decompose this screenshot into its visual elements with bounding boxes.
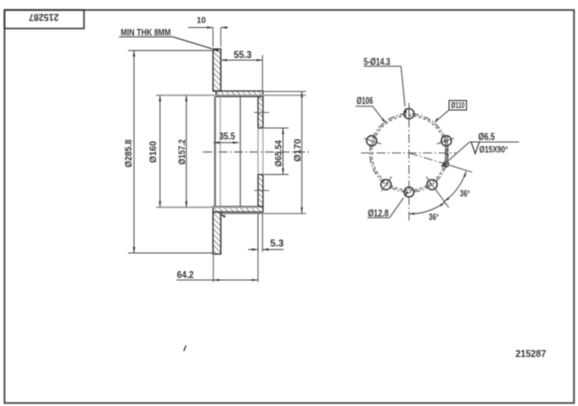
svg-text:Ø106: Ø106	[357, 96, 374, 107]
dimension dia 285.8 (disc OD)	[128, 50, 215, 52]
svg-text:55.3: 55.3	[234, 50, 252, 61]
friction surface inner edge line	[214, 97, 216, 207]
svg-text:5.3: 5.3	[270, 239, 284, 250]
horizontal centerline	[361, 152, 456, 154]
mounting flange wall lower segment (hatched)	[258, 175, 263, 207]
title block box top-left	[5, 10, 85, 29]
svg-text:215287: 215287	[29, 11, 59, 23]
dimension dia 170 (hat OD)	[264, 90, 306, 92]
countersink symbol	[471, 142, 480, 154]
mounting flange wall upper segment (hatched)	[258, 97, 263, 129]
svg-text:36°: 36°	[429, 212, 439, 222]
friction ring top section (hatched)	[213, 49, 221, 91]
diagonal centerline to small hole	[409, 153, 455, 167]
hat bottom wall (hatched)	[213, 207, 263, 213]
small hole dia 6.5	[443, 162, 448, 167]
bolt hole 2 dia 14.3	[437, 136, 454, 146]
dimension 35.5 (inner depth)	[214, 142, 239, 144]
svg-text:Ø285.8: Ø285.8	[124, 140, 135, 168]
dimension dia 160	[159, 95, 161, 207]
center bore edge lines	[258, 127, 263, 129]
angle arc 36 deg (small hole to lower-right hole)	[444, 171, 466, 201]
svg-text:10: 10	[197, 15, 207, 25]
friction ring bottom section (hatched)	[213, 212, 221, 254]
dimension dia 65.54 (center bore)	[264, 127, 289, 129]
svg-text:Ø110: Ø110	[451, 101, 465, 110]
boxed label dia 110 with leader	[449, 101, 467, 111]
circle dia 106 (dashed)	[372, 116, 447, 191]
bolt hole 5 dia 14.3	[381, 177, 392, 192]
radial stub through lower-right hole	[436, 190, 449, 207]
angle arc 36 deg (bottom to lower-right hole)	[409, 202, 445, 214]
svg-text:Ø160: Ø160	[148, 141, 159, 163]
svg-text:215287: 215287	[516, 348, 547, 360]
bolt hole centerline ticks on flange	[254, 112, 269, 114]
bolt hole 1 dia 14.3	[404, 106, 414, 124]
vertical centerline	[408, 103, 410, 222]
svg-text:Ø6.5: Ø6.5	[478, 132, 495, 143]
svg-text:Ø65.54: Ø65.54	[274, 140, 284, 167]
bottom hole dia 12.8	[404, 187, 414, 197]
dimension 5.3 (flange thickness)	[257, 214, 259, 253]
radial stub through small hole	[451, 166, 473, 173]
svg-text:64.2: 64.2	[177, 270, 194, 281]
dimension 64.2 (total depth)	[212, 255, 214, 282]
bolt hole 3 dia 14.3	[426, 177, 437, 192]
small tick mark bottom center	[184, 346, 186, 352]
dimension 10 (disc thickness)	[212, 28, 214, 48]
svg-text:35.5: 35.5	[219, 131, 235, 142]
svg-text:Ø157.2: Ø157.2	[177, 139, 188, 164]
bolt circle dia 110 (dash-dot)	[370, 114, 448, 192]
gray extension lines dia160/157.2	[156, 94, 306, 96]
double line from upper-right bolt hole to small hole	[444, 136, 446, 162]
section axis centerline	[203, 151, 310, 153]
bolt hole 4 dia 14.3	[364, 136, 381, 146]
hat interior bottom edge line	[239, 97, 241, 207]
dimension 55.3 (hat depth)	[262, 55, 264, 91]
dimension dia 157.2	[185, 95, 187, 207]
svg-text:36°: 36°	[460, 188, 470, 198]
friction ring outer face edge (middle, faint)	[219, 97, 221, 207]
svg-text:Ø170: Ø170	[293, 139, 304, 162]
hat top wall (hatched)	[216, 91, 263, 97]
svg-text:Ø15X90°: Ø15X90°	[479, 144, 508, 154]
